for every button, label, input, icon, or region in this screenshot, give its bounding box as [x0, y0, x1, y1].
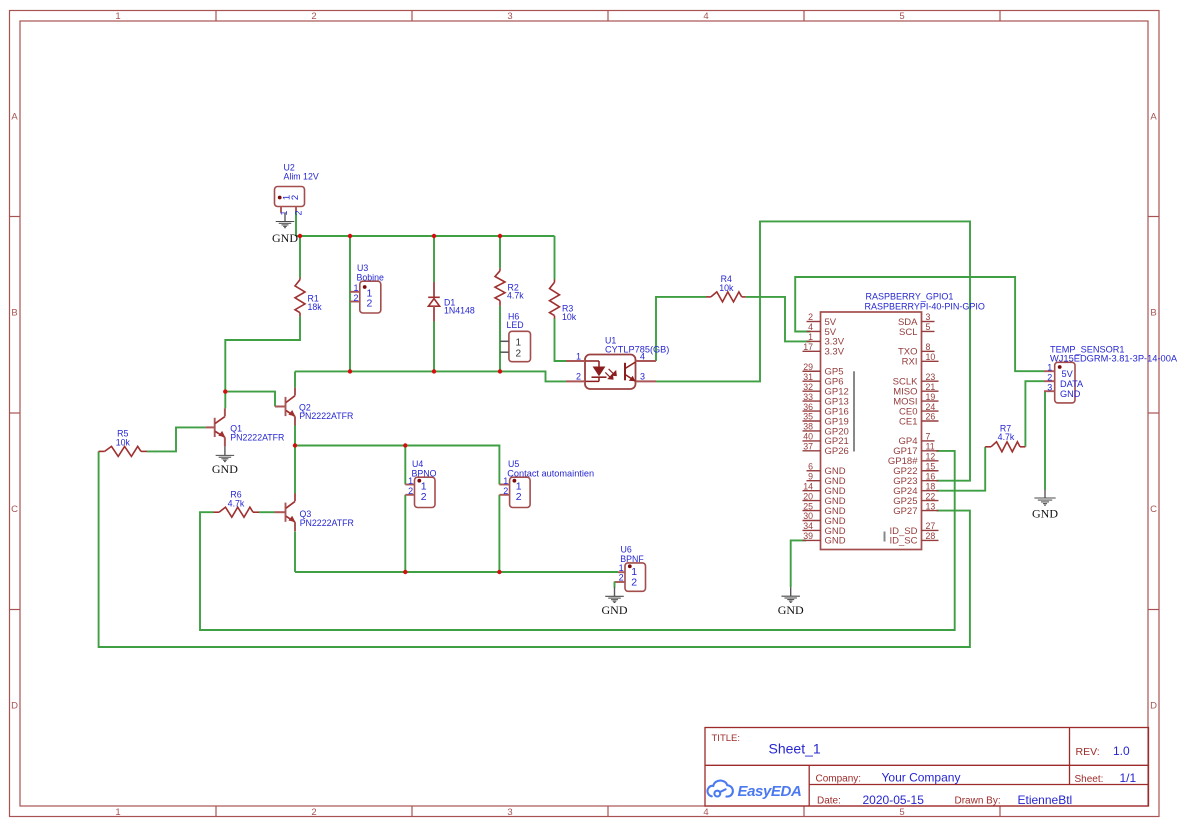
svg-text:32: 32 [803, 382, 813, 392]
label Q1 [230, 424, 242, 434]
wire GP27 to R5 (bottom route) [99, 451, 970, 647]
svg-text:Bobine: Bobine [357, 272, 384, 282]
svg-text:2: 2 [619, 573, 624, 583]
value label 10k [562, 312, 577, 322]
svg-text:5: 5 [899, 11, 904, 22]
svg-text:GND: GND [272, 231, 298, 245]
svg-text:26: 26 [926, 412, 936, 422]
svg-text:2: 2 [516, 348, 522, 359]
svg-text:Alim 12V: Alim 12V [284, 172, 319, 182]
svg-text:11: 11 [926, 442, 935, 452]
svg-text:33: 33 [803, 392, 813, 402]
svg-text:D: D [11, 701, 18, 712]
label U3 [357, 263, 368, 273]
svg-text:2: 2 [311, 807, 316, 818]
label Q3 [300, 509, 312, 519]
wire R1 bottom to node, down to Q1/Q2 [225, 316, 300, 391]
svg-text:20: 20 [803, 491, 813, 501]
ground GND at TEMP pin3 [1032, 489, 1058, 520]
svg-text:22: 22 [926, 491, 936, 501]
label U5 [508, 459, 519, 469]
svg-text:1: 1 [1047, 363, 1052, 373]
svg-text:1.0: 1.0 [1113, 744, 1130, 758]
svg-text:RASPBERRY_GPIO1: RASPBERRY_GPIO1 [866, 292, 954, 302]
svg-text:16: 16 [926, 471, 936, 481]
value label 1N4148 [444, 306, 475, 316]
junction dots on lower bus [348, 369, 502, 373]
junction dots on mid bus [293, 443, 408, 447]
svg-text:23: 23 [926, 372, 936, 382]
label R6 [230, 490, 241, 500]
value label Alim 12V [284, 172, 319, 182]
label U2 [284, 162, 295, 172]
svg-text:1: 1 [516, 337, 522, 348]
IC RASPBERRY_GPIO1 RASPBERRYPI-40-PIN-GPIO [821, 312, 922, 550]
svg-text:D: D [1150, 701, 1157, 712]
wire U4 pin2 down to bottom bus [404, 495, 406, 572]
svg-text:EtienneBtl: EtienneBtl [1018, 793, 1073, 807]
svg-text:3: 3 [507, 807, 512, 818]
svg-text:4: 4 [808, 322, 813, 332]
svg-text:U5: U5 [508, 459, 519, 469]
U5 pin number labels 1 2 [503, 476, 508, 496]
svg-text:GP27: GP27 [893, 506, 917, 517]
svg-text:21: 21 [926, 382, 936, 392]
svg-text:Company:: Company: [816, 774, 862, 785]
svg-text:29: 29 [803, 362, 813, 372]
wire bottom bus to U6 pin1 [295, 571, 618, 573]
connector U2 Alim 12V [275, 187, 305, 213]
RASPBERRY_GPIO1 internal graphic lines [854, 371, 885, 541]
RASPBERRY_GPIO1 right pins with numbers and names [888, 312, 939, 547]
wire R2/H6 branch vertical [499, 236, 501, 371]
value label Contact automaintien [507, 468, 594, 478]
svg-text:39: 39 [803, 531, 813, 541]
svg-text:25: 25 [803, 501, 813, 511]
resistor R1 18k [295, 278, 305, 317]
transistor Q3 PN2222ATFR [275, 493, 296, 531]
svg-text:BPNF: BPNF [620, 554, 644, 564]
value label LED [507, 320, 524, 330]
svg-text:18: 18 [926, 481, 936, 491]
wire U1 pin4 up to R4 left [656, 297, 706, 361]
svg-text:EasyEDA: EasyEDA [738, 783, 802, 800]
svg-text:2: 2 [290, 195, 301, 200]
svg-text:24: 24 [926, 402, 936, 412]
svg-text:RXI: RXI [902, 357, 918, 368]
ground GND at U2 pin1 [272, 213, 298, 246]
svg-text:1N4148: 1N4148 [444, 306, 475, 316]
svg-text:2: 2 [516, 491, 522, 503]
TEMP_SENSOR1 pin number labels 1 2 3 [1047, 363, 1052, 393]
label R4 [721, 274, 732, 284]
svg-text:2: 2 [631, 577, 637, 589]
wire top 12V bus horizontal [296, 235, 555, 237]
svg-text:3: 3 [1047, 383, 1052, 393]
label U6 [621, 544, 632, 554]
svg-text:CE1: CE1 [899, 416, 917, 427]
value label WJ15EDGRM-3.81-3P-14-00A [1050, 353, 1178, 363]
svg-text:37: 37 [803, 442, 813, 452]
label R1 [308, 293, 319, 303]
svg-text:PN2222ATFR: PN2222ATFR [230, 432, 284, 442]
junction dots on bottom bus [403, 570, 502, 574]
wire TEMP GND pin down [1044, 391, 1046, 489]
value label Bobine [357, 272, 384, 282]
svg-text:2: 2 [808, 312, 813, 322]
svg-text:4: 4 [640, 351, 645, 361]
wire R3 branch from top bus [554, 236, 556, 280]
svg-text:C: C [11, 504, 18, 515]
wire U5 pin2 down to bottom bus [498, 495, 500, 572]
svg-text:GND: GND [212, 462, 238, 476]
svg-text:10k: 10k [116, 437, 131, 447]
resistor R4 10k [706, 292, 746, 302]
label TEMP_SENSOR1 [1050, 345, 1125, 355]
svg-text:REV:: REV: [1076, 746, 1100, 758]
svg-text:7: 7 [926, 432, 931, 442]
wire GP17 to R6 (bottom route) [200, 451, 955, 630]
svg-text:19: 19 [926, 392, 936, 402]
value label 4.7k [507, 291, 524, 301]
svg-text:BPNO: BPNO [412, 468, 437, 478]
svg-text:10k: 10k [562, 312, 577, 322]
svg-text:4.7k: 4.7k [228, 498, 245, 508]
svg-text:B: B [11, 308, 17, 319]
svg-text:35: 35 [803, 412, 813, 422]
svg-text:GND: GND [1032, 506, 1058, 520]
ground GND at U6 pin2 [602, 582, 628, 617]
svg-text:38: 38 [803, 422, 813, 432]
svg-text:1: 1 [576, 351, 581, 361]
wire GP24 up to R7 left [937, 447, 986, 491]
wire node to Q2 base [225, 392, 275, 407]
svg-text:CYTLP785(GB): CYTLP785(GB) [605, 345, 669, 355]
svg-text:12: 12 [926, 452, 936, 462]
svg-text:SCL: SCL [899, 327, 917, 338]
wire Q2 emitter down to mid bus [294, 417, 296, 446]
svg-text:4.7k: 4.7k [507, 291, 524, 301]
wire R1 top branch [299, 236, 301, 278]
svg-text:Contact automaintien: Contact automaintien [507, 468, 594, 478]
svg-text:10: 10 [926, 352, 936, 362]
svg-text:3: 3 [926, 312, 931, 322]
svg-text:5: 5 [926, 322, 931, 332]
wire U4 pin1 up to mid bus [404, 446, 406, 485]
U1 pin number labels 1 2 4 3 [576, 351, 645, 381]
connector U3 Bobine [350, 281, 381, 313]
svg-text:DATA: DATA [1060, 379, 1084, 389]
TEMP_SENSOR1 pin name labels 5V DATA GND [1060, 369, 1084, 399]
resistor R6 4.7k [214, 507, 260, 517]
svg-text:2: 2 [408, 486, 413, 496]
svg-text:GP26: GP26 [825, 446, 849, 457]
wire node down to Q1 collector [224, 392, 226, 409]
svg-text:2020-05-15: 2020-05-15 [863, 793, 925, 807]
value label 4.7k [228, 498, 245, 508]
svg-text:2: 2 [311, 11, 316, 22]
svg-text:GND: GND [825, 536, 846, 547]
label U4 [412, 459, 423, 469]
U3 pin number labels 1 2 [353, 283, 358, 303]
wire mid bus to U5 pin1 [295, 446, 499, 485]
svg-text:28: 28 [926, 531, 936, 541]
transistor Q2 PN2222ATFR [275, 388, 295, 426]
svg-text:1: 1 [808, 332, 813, 342]
label R7 [1000, 423, 1011, 433]
svg-text:WJ15EDGRM-3.81-3P-14-00A: WJ15EDGRM-3.81-3P-14-00A [1050, 353, 1178, 363]
svg-text:PN2222ATFR: PN2222ATFR [300, 518, 354, 528]
value label 10k [719, 283, 734, 293]
wire U3 branch vertical [349, 236, 351, 371]
svg-text:TITLE:: TITLE: [712, 733, 741, 744]
svg-text:Drawn By:: Drawn By: [955, 796, 1001, 807]
U6 pin number labels 1 2 [619, 563, 624, 583]
U2 pin number labels 1 2 [279, 210, 303, 215]
svg-text:1: 1 [115, 11, 120, 22]
svg-text:Sheet:: Sheet: [1075, 774, 1104, 785]
svg-text:8: 8 [926, 342, 931, 352]
label H6 [508, 312, 519, 322]
svg-text:1: 1 [619, 563, 624, 573]
svg-text:Your Company: Your Company [882, 770, 961, 784]
ground GND at GPIO pin39 [778, 587, 804, 617]
svg-text:34: 34 [803, 521, 813, 531]
svg-text:30: 30 [803, 511, 813, 521]
svg-text:1/1: 1/1 [1120, 771, 1137, 785]
svg-text:36: 36 [803, 402, 813, 412]
svg-text:1: 1 [408, 476, 413, 486]
svg-text:A: A [1150, 112, 1157, 123]
svg-text:2: 2 [576, 372, 581, 382]
svg-text:1: 1 [115, 807, 120, 818]
value label CYTLP785(GB) [605, 345, 669, 355]
svg-text:GND: GND [1060, 389, 1081, 399]
svg-text:4: 4 [703, 11, 708, 22]
wire U1 pin3 to GP23 (net over top) [656, 221, 970, 480]
svg-text:U4: U4 [412, 459, 423, 469]
svg-text:4: 4 [703, 807, 708, 818]
label R2 [508, 283, 519, 293]
svg-text:17: 17 [803, 342, 813, 352]
wire lower bus (Q2 collector rail) [295, 371, 566, 381]
svg-text:B: B [1150, 308, 1156, 319]
label Q2 [299, 403, 311, 413]
svg-text:ID_SC: ID_SC [890, 536, 918, 547]
svg-text:9: 9 [808, 471, 813, 481]
svg-text:13: 13 [926, 501, 936, 511]
junction node R1/Q1/Q2 [223, 389, 227, 393]
svg-text:5: 5 [899, 807, 904, 818]
svg-text:2: 2 [1047, 373, 1052, 383]
svg-text:1: 1 [353, 283, 358, 293]
wire R5 right to Q1 base [147, 427, 206, 451]
U4 pin number labels 1 2 [408, 476, 413, 496]
label R3 [562, 304, 573, 314]
svg-text:A: A [11, 112, 18, 123]
wire Q3 emitter down [294, 531, 296, 572]
value label BPNO [412, 468, 437, 478]
resistor R7 4.7k [985, 442, 1025, 452]
svg-text:2: 2 [421, 491, 427, 503]
svg-text:15: 15 [926, 461, 936, 471]
svg-text:1: 1 [279, 210, 289, 215]
value label 18k [308, 302, 323, 312]
svg-text:5V: 5V [1062, 369, 1074, 379]
svg-text:40: 40 [803, 432, 813, 442]
svg-text:18k: 18k [308, 302, 323, 312]
diode D1 1N4148 [428, 282, 440, 321]
connector H6 LED [500, 331, 531, 361]
svg-text:C: C [1150, 504, 1157, 515]
wire D1 branch vertical [433, 236, 435, 371]
label D1 [444, 298, 455, 308]
svg-text:1: 1 [503, 476, 508, 486]
svg-text:PN2222ATFR: PN2222ATFR [299, 411, 353, 421]
value label PN2222ATFR [299, 411, 353, 421]
connector U4 BPNO [405, 477, 435, 507]
svg-text:GND: GND [602, 603, 628, 617]
junction dots on 12V bus [298, 234, 502, 238]
svg-text:Sheet_1: Sheet_1 [769, 741, 821, 757]
wire R4 right to GPIO pin1 3.3V [746, 297, 811, 342]
svg-text:Date:: Date: [817, 796, 841, 807]
svg-text:GND: GND [778, 603, 804, 617]
svg-text:3.3V: 3.3V [825, 347, 845, 358]
opto-coupler U1 CYTLP785(GB) [566, 355, 656, 390]
resistor R5 10k [99, 446, 147, 456]
svg-text:U6: U6 [621, 544, 632, 554]
resistor R2 4.7k [495, 268, 505, 306]
transistor Q1 PN2222ATFR [206, 408, 226, 446]
svg-text:27: 27 [926, 521, 936, 531]
value label 4.7k [998, 432, 1015, 442]
connector U5 Contact automaintien [499, 477, 530, 507]
svg-text:2: 2 [367, 298, 373, 310]
svg-text:6: 6 [808, 461, 813, 471]
ground GND at Q1 emitter [212, 446, 238, 476]
wire 12V net: U2 pin2 down to top bus [295, 210, 297, 236]
svg-text:14: 14 [803, 481, 813, 491]
RASPBERRY_GPIO1 left pins with numbers and names [803, 312, 849, 547]
svg-text:LED: LED [507, 320, 524, 330]
label R5 [117, 429, 128, 439]
wire R6 right to Q3 base [259, 511, 275, 513]
svg-text:3: 3 [507, 11, 512, 22]
wire 5V net: GPIO pin4 to TEMP pin1 [795, 277, 1044, 371]
svg-text:RASPBERRYPI-40-PIN-GPIO: RASPBERRYPI-40-PIN-GPIO [865, 301, 985, 311]
svg-text:31: 31 [803, 372, 813, 382]
label U1 [605, 336, 616, 346]
resistor R3 10k [550, 280, 560, 319]
wire Q3 collector from mid bus [294, 446, 296, 494]
value label 10k [116, 437, 131, 447]
wire R7 right to TEMP DATA pin [1025, 381, 1044, 447]
svg-text:2: 2 [293, 210, 303, 215]
svg-text:4.7k: 4.7k [998, 432, 1015, 442]
connector TEMP_SENSOR1 WJ15EDGRM-3.81-3P-14-00A [1044, 362, 1075, 403]
wire GPIO pin39 to ground [791, 540, 806, 587]
value label RASPBERRYPI-40-PIN-GPIO [865, 301, 985, 311]
label RASPBERRY_GPIO1 [866, 292, 954, 302]
connector U6 BPNF [615, 563, 646, 591]
wire R3 bottom to U1 pin1 [555, 319, 567, 362]
svg-text:2: 2 [503, 486, 508, 496]
value label BPNF [620, 554, 644, 564]
svg-text:3: 3 [640, 372, 645, 382]
svg-text:10k: 10k [719, 283, 734, 293]
wire Q2 collector stub up [294, 371, 296, 387]
svg-text:2: 2 [353, 293, 358, 303]
value label PN2222ATFR [300, 518, 354, 528]
value label PN2222ATFR [230, 432, 284, 442]
